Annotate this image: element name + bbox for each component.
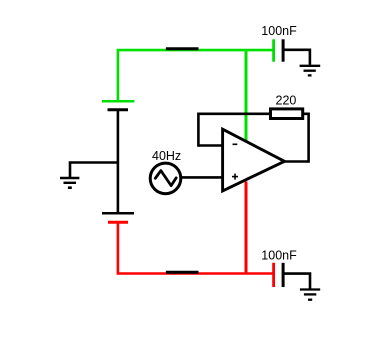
- svg-text:100nF: 100nF: [261, 24, 297, 38]
- svg-text:100nF: 100nF: [261, 249, 297, 263]
- svg-text:220: 220: [276, 93, 297, 107]
- svg-text:40Hz: 40Hz: [152, 149, 181, 163]
